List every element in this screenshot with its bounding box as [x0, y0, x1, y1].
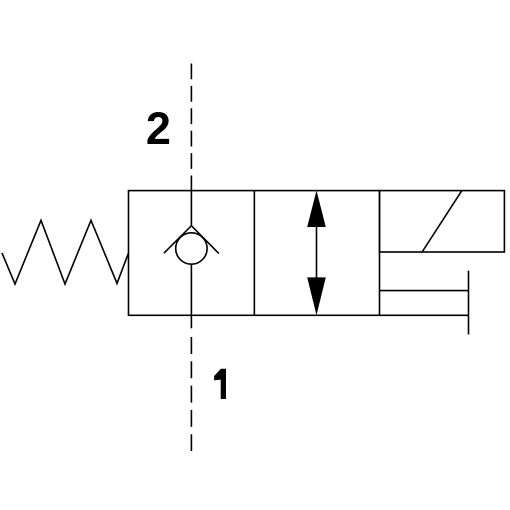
wire: stem above check-valve seat [190, 191, 192, 226]
wire: upper terminal lead [380, 290, 469, 292]
spring (return spring, left) [2, 220, 129, 284]
label 1 [214, 369, 226, 399]
check valve seat (V) [164, 226, 219, 254]
flow arrowhead up [307, 191, 326, 228]
flow arrowhead down [307, 277, 326, 315]
flow arrow shaft [316, 226, 318, 279]
wire: lower terminal lead [380, 314, 469, 316]
solenoid diagonal [422, 191, 462, 252]
wire: stem below ball through box bottom [190, 264, 192, 328]
node 2 dashed pilot line (top) [190, 64, 192, 191]
wire: position divider [253, 191, 255, 316]
svg-text:2: 2 [146, 103, 171, 154]
solenoid box [380, 191, 505, 252]
valve body box (positions 1+2) [129, 191, 380, 316]
node 1 dashed pilot line (bottom) [190, 337, 192, 451]
check valve ball [176, 233, 207, 264]
terminal bar [468, 271, 470, 335]
